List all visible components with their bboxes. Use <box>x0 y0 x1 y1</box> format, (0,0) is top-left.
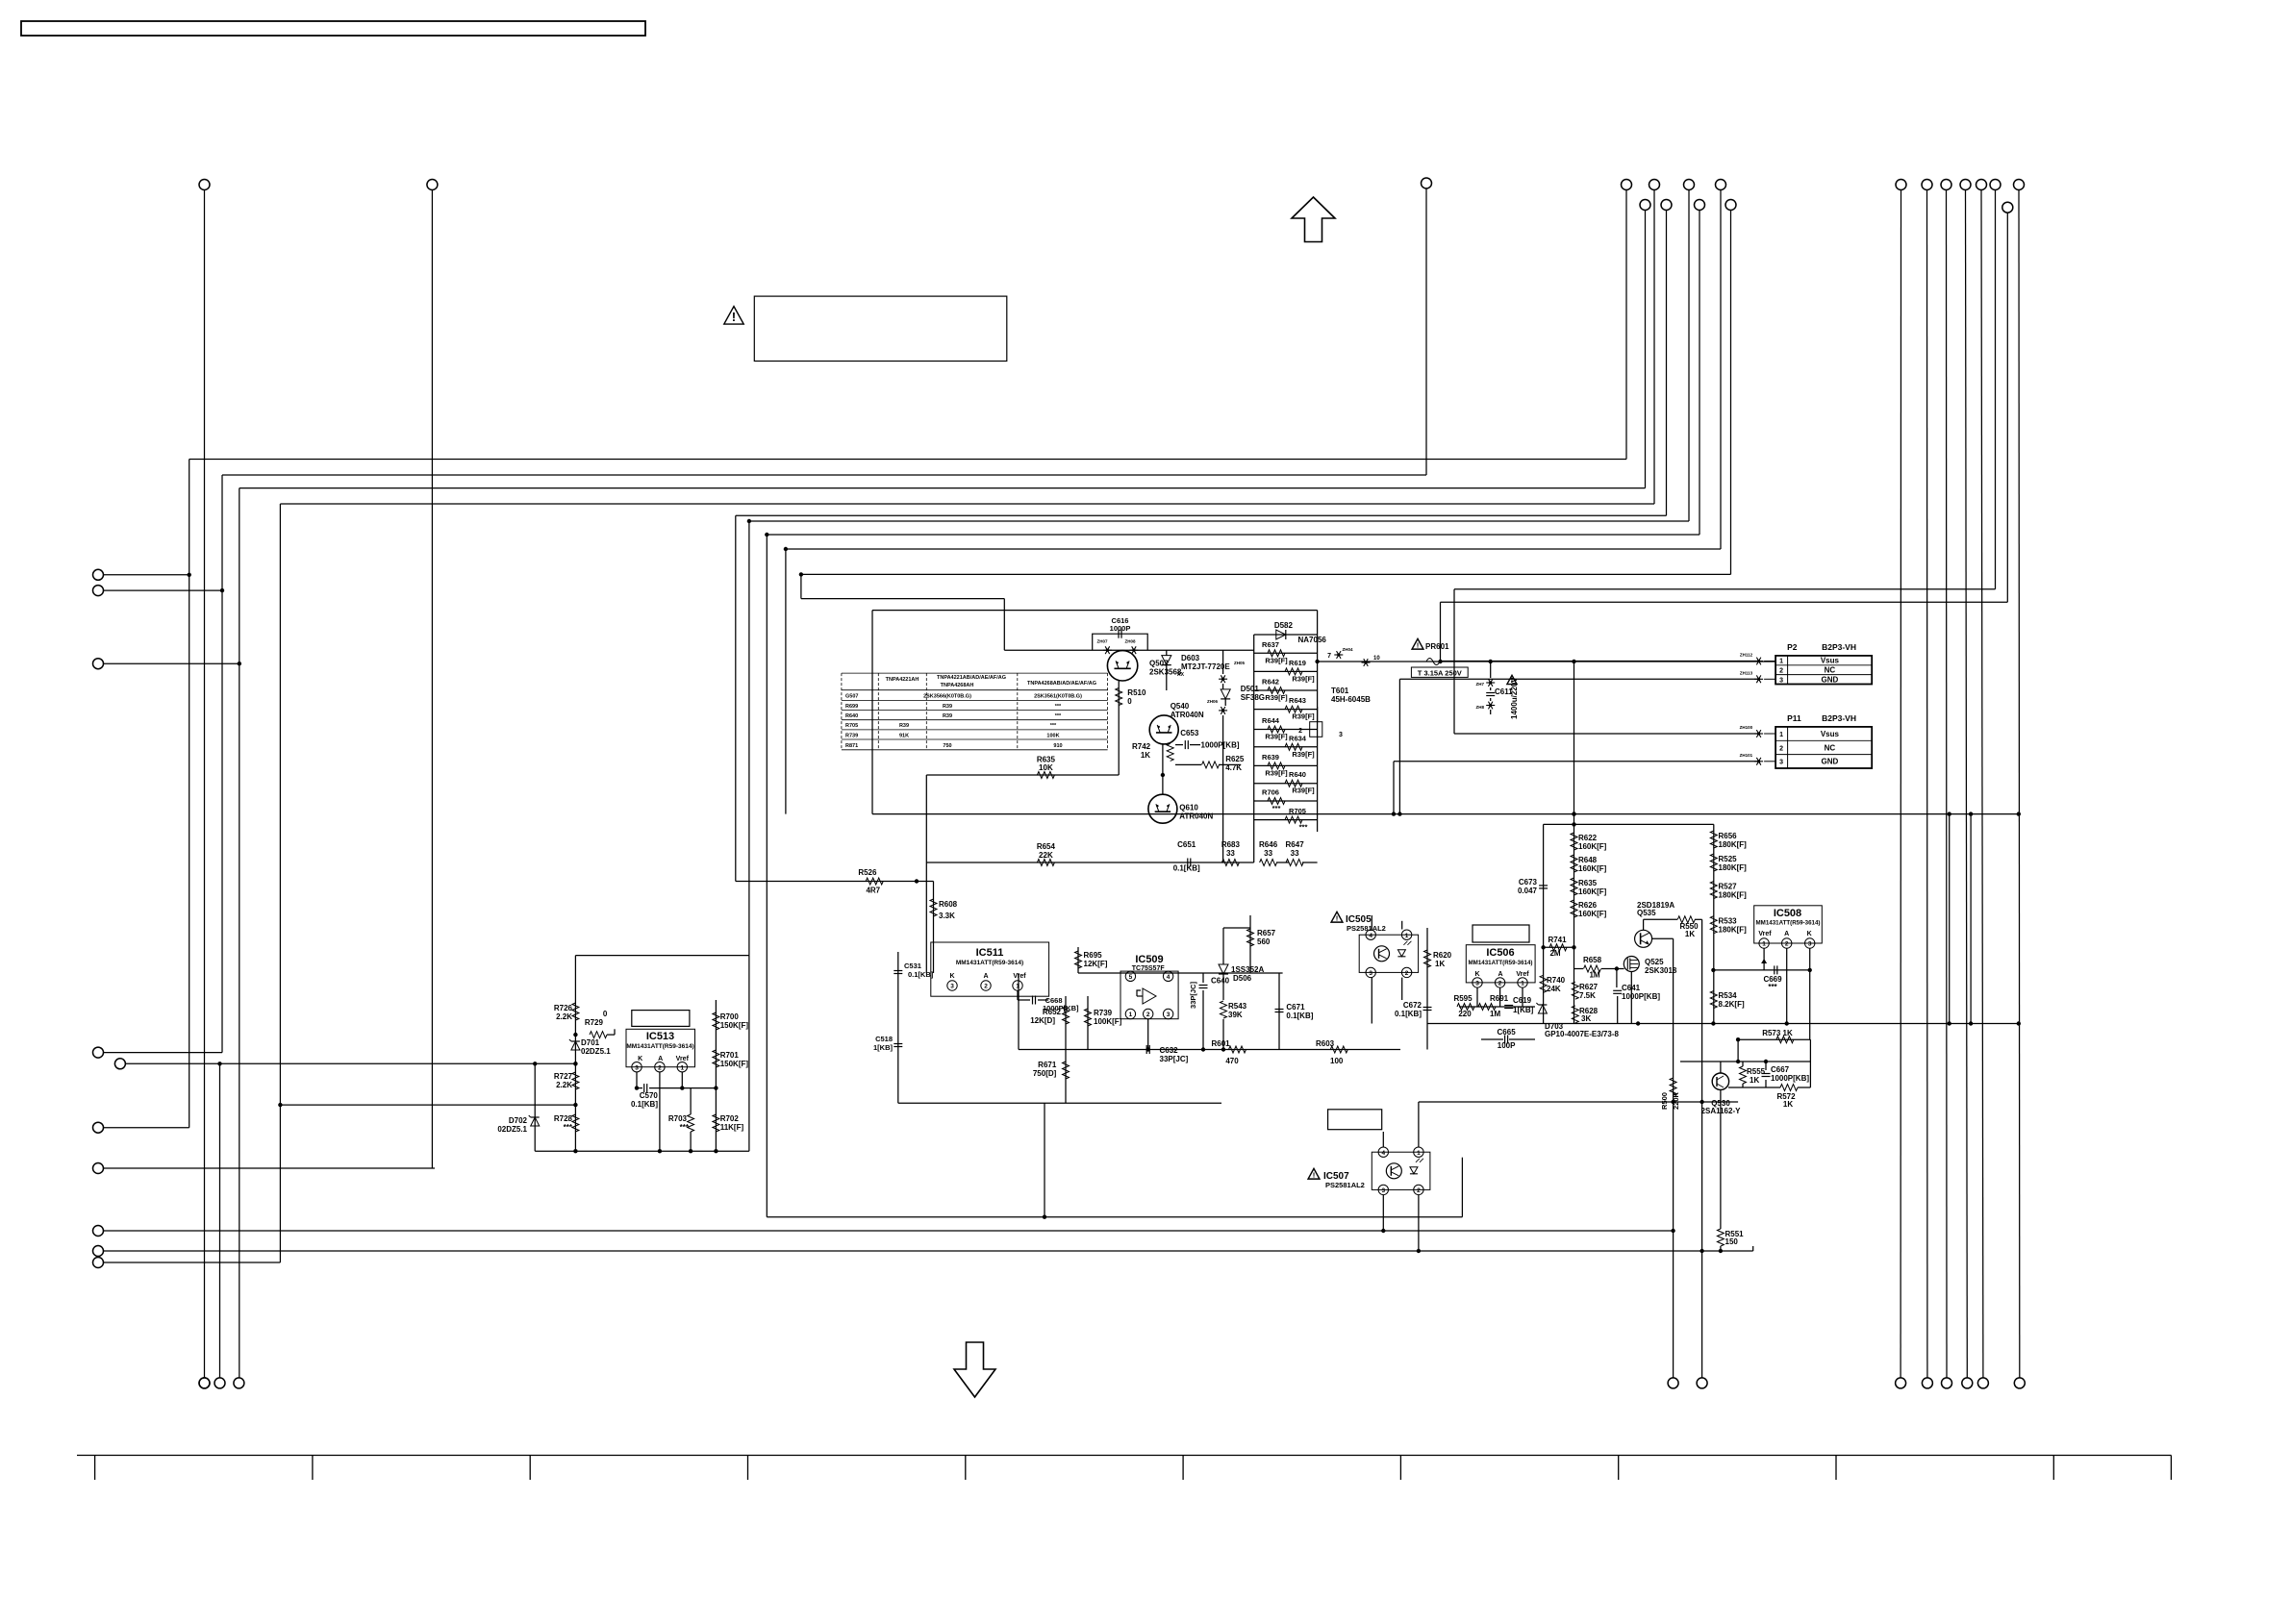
svg-text:C667: C667 <box>1771 1065 1790 1074</box>
svg-text:R500: R500 <box>1660 1092 1669 1110</box>
svg-text:R646: R646 <box>1259 840 1278 849</box>
svg-text:1400u/220V: 1400u/220V <box>1510 677 1519 719</box>
svg-text:91K: 91K <box>899 734 909 739</box>
svg-text:R39[F]: R39[F] <box>1292 787 1315 795</box>
svg-text:0.1[KB]: 0.1[KB] <box>1395 1010 1422 1018</box>
svg-text:33: 33 <box>1226 849 1235 858</box>
svg-text:GND: GND <box>1822 675 1839 684</box>
svg-text:R741: R741 <box>1548 936 1567 944</box>
svg-text:1K: 1K <box>1435 960 1445 968</box>
svg-text:R740: R740 <box>1547 976 1566 985</box>
svg-text:GP10-4007E-E3/73-8: GP10-4007E-E3/73-8 <box>1545 1030 1619 1038</box>
svg-text:1K: 1K <box>1783 1100 1793 1109</box>
svg-text:3: 3 <box>635 1064 639 1071</box>
svg-text:R702: R702 <box>720 1114 740 1123</box>
svg-text:ZH08: ZH08 <box>1124 639 1136 644</box>
svg-text:D501: D501 <box>1241 685 1260 693</box>
svg-text:R39[F]: R39[F] <box>1292 750 1315 759</box>
svg-text:A: A <box>1498 971 1502 978</box>
svg-text:10K: 10K <box>1039 763 1053 772</box>
svg-text:Vref: Vref <box>1758 931 1772 937</box>
svg-text:1M: 1M <box>1490 1010 1500 1018</box>
svg-text:R706: R706 <box>1262 788 1279 797</box>
svg-text:22K: 22K <box>1039 851 1053 860</box>
svg-text:***: *** <box>1299 823 1308 832</box>
svg-text:R683: R683 <box>1221 840 1241 849</box>
svg-text:B2P3-VH: B2P3-VH <box>1822 713 1856 723</box>
svg-text:GND: GND <box>1822 758 1839 766</box>
svg-text:P2: P2 <box>1787 642 1798 652</box>
svg-text:R644: R644 <box>1262 716 1280 725</box>
svg-text:0.1[KB]: 0.1[KB] <box>1173 864 1200 873</box>
svg-text:3: 3 <box>1167 1012 1171 1018</box>
svg-text:2: 2 <box>1785 941 1789 948</box>
svg-text:R543: R543 <box>1228 1002 1247 1011</box>
svg-text:160K[F]: 160K[F] <box>1578 842 1607 851</box>
svg-text:4: 4 <box>1167 974 1171 981</box>
svg-text:R657: R657 <box>1257 929 1276 937</box>
svg-text:R573 1K: R573 1K <box>1762 1029 1793 1037</box>
svg-text:D582: D582 <box>1274 621 1294 630</box>
svg-text:SF38G: SF38G <box>1241 693 1265 702</box>
svg-text:ZH05: ZH05 <box>1234 661 1246 665</box>
svg-text:470: 470 <box>1225 1057 1239 1065</box>
svg-text:1[KB]: 1[KB] <box>873 1043 894 1052</box>
svg-text:02DZ5.1: 02DZ5.1 <box>497 1125 527 1134</box>
svg-text:R729: R729 <box>585 1018 604 1027</box>
svg-text:3: 3 <box>1369 970 1372 977</box>
svg-text:R603: R603 <box>1316 1039 1335 1048</box>
svg-text:***: *** <box>680 1123 690 1132</box>
svg-text:1K: 1K <box>1685 930 1695 938</box>
svg-text:4: 4 <box>1369 933 1372 939</box>
svg-text:C653: C653 <box>1180 729 1199 737</box>
svg-text:C651: C651 <box>1177 840 1196 849</box>
svg-text:7.5K: 7.5K <box>1579 991 1596 1000</box>
svg-text:1: 1 <box>1779 659 1783 665</box>
svg-text:R619: R619 <box>1289 659 1306 667</box>
svg-text:K: K <box>1474 971 1479 978</box>
svg-text:R39: R39 <box>943 713 952 719</box>
svg-text:1[KB]: 1[KB] <box>1513 1006 1534 1014</box>
svg-text:R695: R695 <box>1084 951 1103 960</box>
svg-text:0.1[KB]: 0.1[KB] <box>631 1100 658 1109</box>
svg-text:C672: C672 <box>1403 1001 1422 1010</box>
svg-text:TC75S57F: TC75S57F <box>1132 965 1166 972</box>
svg-text:PS2581AL2: PS2581AL2 <box>1347 924 1386 933</box>
svg-text:2: 2 <box>1417 1187 1421 1194</box>
svg-text:3: 3 <box>1808 941 1812 948</box>
svg-text:Vref: Vref <box>1013 973 1026 980</box>
svg-text:10: 10 <box>1373 656 1380 662</box>
svg-text:0: 0 <box>1127 697 1132 706</box>
svg-text:MM1431ATT(R59-3614): MM1431ATT(R59-3614) <box>956 960 1023 966</box>
svg-text:A: A <box>983 973 988 980</box>
svg-text:ZH101: ZH101 <box>1740 753 1753 758</box>
svg-text:C665: C665 <box>1498 1028 1517 1037</box>
svg-text:2: 2 <box>1146 1012 1150 1018</box>
svg-text:R39: R39 <box>943 704 952 710</box>
svg-text:1K: 1K <box>1141 751 1150 760</box>
svg-text:100K[F]: 100K[F] <box>1094 1017 1122 1026</box>
svg-text:R533: R533 <box>1719 917 1738 926</box>
svg-text:C632: C632 <box>1160 1046 1179 1055</box>
svg-text:R671: R671 <box>1038 1061 1057 1069</box>
svg-text:3: 3 <box>1779 677 1783 684</box>
svg-text:45H-6045B: 45H-6045B <box>1331 695 1371 704</box>
svg-text:IC508: IC508 <box>1774 908 1801 919</box>
svg-text:3: 3 <box>950 984 954 990</box>
svg-text:2SK3566(K0T0B.G): 2SK3566(K0T0B.G) <box>923 694 971 700</box>
svg-text:7: 7 <box>1327 653 1331 660</box>
svg-text:5: 5 <box>1129 974 1133 981</box>
svg-text:1000P[KB]: 1000P[KB] <box>1622 992 1660 1001</box>
svg-text:R595: R595 <box>1453 994 1473 1003</box>
svg-text:R527: R527 <box>1719 883 1738 891</box>
svg-text:R620: R620 <box>1433 951 1452 960</box>
svg-text:1: 1 <box>1779 732 1783 738</box>
svg-text:R555: R555 <box>1747 1067 1766 1076</box>
svg-text:T601: T601 <box>1331 687 1349 695</box>
svg-text:R622: R622 <box>1578 834 1598 842</box>
svg-text:R654: R654 <box>1037 842 1056 851</box>
svg-text:NC: NC <box>1825 743 1836 752</box>
svg-text:IC513: IC513 <box>646 1031 674 1042</box>
svg-text:2SK3561(K0T0B.G): 2SK3561(K0T0B.G) <box>1034 694 1082 700</box>
svg-text:C570: C570 <box>640 1091 659 1100</box>
svg-text:MM1431ATT(R59-3614): MM1431ATT(R59-3614) <box>1756 920 1821 927</box>
svg-text:R691: R691 <box>1490 994 1509 1003</box>
svg-text:0.1[KB]: 0.1[KB] <box>1286 1012 1313 1020</box>
svg-text:1SS352A: 1SS352A <box>1231 965 1264 974</box>
svg-text:A: A <box>1784 931 1789 937</box>
svg-text:ZH112: ZH112 <box>1740 653 1753 658</box>
svg-text:IC509: IC509 <box>1135 954 1163 965</box>
svg-text:***: *** <box>1055 704 1062 710</box>
svg-text:1: 1 <box>1129 1012 1133 1018</box>
svg-text:24K: 24K <box>1547 985 1561 993</box>
svg-text:***: *** <box>1050 723 1057 729</box>
svg-text:K: K <box>1807 931 1812 937</box>
svg-text:R701: R701 <box>720 1051 740 1060</box>
svg-text:Q535: Q535 <box>1637 909 1656 917</box>
svg-text:R705: R705 <box>1289 807 1306 815</box>
svg-text:MM1431ATT(R59-3614): MM1431ATT(R59-3614) <box>626 1043 693 1050</box>
svg-text:160K[F]: 160K[F] <box>1578 864 1607 873</box>
svg-text:11K[F]: 11K[F] <box>720 1123 744 1132</box>
svg-text:1000P: 1000P <box>1110 624 1131 633</box>
svg-text:C640: C640 <box>1211 977 1230 986</box>
svg-text:***: *** <box>1768 983 1777 991</box>
svg-text:Vref: Vref <box>1516 971 1529 978</box>
svg-text:R639: R639 <box>1262 753 1279 762</box>
svg-text:R727: R727 <box>554 1072 573 1081</box>
svg-text:0.1[KB]: 0.1[KB] <box>908 970 934 979</box>
svg-text:150: 150 <box>1725 1237 1739 1246</box>
svg-text:R39[F]: R39[F] <box>1292 712 1315 721</box>
svg-text:160K[F]: 160K[F] <box>1578 887 1607 896</box>
svg-text:Q525: Q525 <box>1645 958 1664 966</box>
svg-text:ZH04: ZH04 <box>1342 647 1353 652</box>
svg-text:!: ! <box>1417 640 1420 649</box>
svg-text:R39: R39 <box>899 723 909 729</box>
svg-text:R510: R510 <box>1127 688 1146 697</box>
svg-text:G507: G507 <box>845 694 858 700</box>
svg-text:33P[JC]: 33P[JC] <box>1160 1055 1189 1063</box>
svg-text:R608: R608 <box>939 900 958 909</box>
svg-text:R39[F]: R39[F] <box>1265 768 1288 777</box>
svg-text:1000P[KB]: 1000P[KB] <box>1201 741 1240 750</box>
svg-text:180K[F]: 180K[F] <box>1719 926 1748 935</box>
svg-text:1: 1 <box>1405 933 1409 939</box>
svg-text:Q610: Q610 <box>1179 804 1198 812</box>
svg-text:R634: R634 <box>1289 734 1307 742</box>
svg-text:Q540: Q540 <box>1171 702 1190 711</box>
svg-text:2M: 2M <box>1549 949 1560 958</box>
svg-text:39K: 39K <box>1228 1011 1243 1019</box>
svg-text:TNPA4221AH: TNPA4221AH <box>886 677 919 683</box>
svg-text:R647: R647 <box>1286 840 1305 849</box>
svg-text:ZH113: ZH113 <box>1740 670 1753 675</box>
svg-text:ZH100: ZH100 <box>1740 725 1753 730</box>
svg-text:2: 2 <box>1779 745 1783 752</box>
svg-text:AX: AX <box>1177 672 1185 678</box>
svg-text:IC511: IC511 <box>976 947 1004 959</box>
svg-text:12K[F]: 12K[F] <box>1084 960 1108 968</box>
svg-text:1000P[KB]: 1000P[KB] <box>1771 1074 1809 1083</box>
svg-text:100K: 100K <box>1046 734 1059 739</box>
svg-text:R637: R637 <box>1262 640 1279 649</box>
svg-text:R705: R705 <box>845 723 858 729</box>
svg-text:PR601: PR601 <box>1425 642 1449 651</box>
svg-text:12K[D]: 12K[D] <box>1030 1016 1055 1025</box>
svg-text:R39[F]: R39[F] <box>1265 733 1288 741</box>
svg-text:ZH06: ZH06 <box>1207 699 1219 704</box>
svg-text:33: 33 <box>1291 849 1299 858</box>
svg-text:4R7: 4R7 <box>866 887 880 895</box>
svg-text:R700: R700 <box>720 1012 740 1021</box>
svg-text:R635: R635 <box>1578 879 1598 887</box>
svg-text:R703: R703 <box>668 1114 688 1123</box>
svg-text:3: 3 <box>1779 760 1783 766</box>
svg-text:R526: R526 <box>858 868 877 877</box>
svg-text:180K[F]: 180K[F] <box>1719 891 1748 900</box>
svg-text:1M: 1M <box>1589 971 1599 980</box>
svg-text:K: K <box>949 973 954 980</box>
svg-text:2.2K: 2.2K <box>556 1012 572 1021</box>
svg-text:D701: D701 <box>581 1038 600 1047</box>
svg-text:B2P3-VH: B2P3-VH <box>1822 642 1856 652</box>
svg-text:ZH8: ZH8 <box>1475 705 1484 710</box>
svg-text:8.2K[F]: 8.2K[F] <box>1719 1000 1745 1009</box>
svg-text:1: 1 <box>1417 1150 1421 1157</box>
svg-text:33: 33 <box>1264 849 1272 858</box>
svg-text:4: 4 <box>1381 1150 1385 1157</box>
svg-text:220: 220 <box>1458 1010 1472 1018</box>
svg-text:T 3.15A 250V: T 3.15A 250V <box>1418 668 1462 677</box>
svg-text:750: 750 <box>943 743 951 749</box>
svg-text:150K[F]: 150K[F] <box>720 1060 749 1068</box>
svg-text:R525: R525 <box>1719 855 1738 863</box>
svg-text:C531: C531 <box>904 962 921 970</box>
svg-text:2SK3018: 2SK3018 <box>1645 966 1677 975</box>
svg-text:R658: R658 <box>1583 956 1602 964</box>
svg-text:C518: C518 <box>875 1035 893 1043</box>
svg-text:R534: R534 <box>1719 991 1738 1000</box>
svg-text:Vsus: Vsus <box>1821 730 1840 738</box>
svg-text:R648: R648 <box>1578 856 1598 864</box>
svg-text:2.2K: 2.2K <box>556 1081 572 1089</box>
svg-text:3: 3 <box>1381 1187 1385 1194</box>
svg-text:D506: D506 <box>1233 974 1252 983</box>
svg-text:!: ! <box>732 310 736 324</box>
svg-text:150K[F]: 150K[F] <box>720 1021 749 1030</box>
svg-text:IC506: IC506 <box>1486 947 1514 959</box>
svg-text:A: A <box>658 1056 663 1062</box>
svg-text:1: 1 <box>1762 941 1766 948</box>
svg-text:02DZ5.1: 02DZ5.1 <box>581 1047 611 1056</box>
svg-text:R652: R652 <box>1043 1008 1062 1016</box>
svg-text:P11: P11 <box>1787 713 1801 723</box>
svg-text:R39[F]: R39[F] <box>1265 693 1288 702</box>
svg-text:R601: R601 <box>1211 1039 1230 1048</box>
svg-text:1: 1 <box>680 1064 684 1071</box>
svg-text:3K: 3K <box>1581 1014 1591 1023</box>
svg-text:750[D]: 750[D] <box>1033 1069 1057 1078</box>
svg-text:ATR040N: ATR040N <box>1171 711 1204 719</box>
svg-text:R625: R625 <box>1225 755 1245 763</box>
svg-text:0: 0 <box>603 1010 608 1018</box>
svg-text:R627: R627 <box>1579 983 1599 991</box>
svg-text:3: 3 <box>1475 981 1479 987</box>
svg-text:2: 2 <box>1405 970 1409 977</box>
svg-text:180K[F]: 180K[F] <box>1719 840 1748 849</box>
svg-text:3: 3 <box>1339 732 1343 738</box>
svg-text:K: K <box>638 1056 642 1062</box>
svg-text:ATR040N: ATR040N <box>1179 812 1213 821</box>
svg-text:C673: C673 <box>1519 878 1538 887</box>
svg-text:***: *** <box>564 1123 573 1132</box>
svg-text:TNPA4268AB/AD/AE/AF/AG: TNPA4268AB/AD/AE/AF/AG <box>1027 681 1096 687</box>
svg-text:2: 2 <box>658 1064 662 1071</box>
svg-text:NA7056: NA7056 <box>1298 636 1327 644</box>
svg-text:!: ! <box>1336 913 1339 922</box>
svg-text:R871: R871 <box>845 743 858 749</box>
svg-text:2: 2 <box>984 984 988 990</box>
svg-text:R643: R643 <box>1289 696 1306 705</box>
svg-text:NC: NC <box>1825 666 1836 675</box>
svg-text:!: ! <box>1313 1170 1316 1179</box>
svg-text:D702: D702 <box>509 1116 528 1125</box>
svg-text:Vref: Vref <box>676 1056 690 1062</box>
svg-text:C671: C671 <box>1286 1003 1305 1012</box>
svg-text:180K[F]: 180K[F] <box>1719 863 1748 872</box>
svg-text:D603: D603 <box>1181 654 1200 662</box>
svg-text:Vsus: Vsus <box>1821 657 1840 665</box>
svg-text:R39[F]: R39[F] <box>1265 656 1288 664</box>
svg-text:1K: 1K <box>1750 1076 1759 1085</box>
svg-text:3.3K: 3.3K <box>939 912 955 920</box>
svg-text:100P: 100P <box>1498 1041 1516 1050</box>
svg-text:R642: R642 <box>1262 678 1279 687</box>
svg-text:910: 910 <box>1053 743 1062 749</box>
svg-text:TNPA4221AB/AD/AE/AF/AG: TNPA4221AB/AD/AE/AF/AG <box>937 675 1006 681</box>
svg-text:160K[F]: 160K[F] <box>1578 910 1607 918</box>
svg-text:TNPA4268AH: TNPA4268AH <box>941 683 974 688</box>
svg-text:2: 2 <box>1498 981 1502 987</box>
svg-text:ZH07: ZH07 <box>1096 639 1108 644</box>
svg-text:R739: R739 <box>845 734 858 739</box>
svg-text:R739: R739 <box>1094 1009 1113 1017</box>
svg-text:R640: R640 <box>845 713 858 719</box>
svg-text:R728: R728 <box>554 1114 573 1123</box>
svg-text:R742: R742 <box>1132 742 1151 751</box>
svg-text:R726: R726 <box>554 1004 573 1012</box>
svg-text:C619: C619 <box>1513 996 1532 1005</box>
svg-text:R626: R626 <box>1578 901 1598 910</box>
svg-text:R39[F]: R39[F] <box>1292 674 1315 683</box>
svg-text:33P[JC]: 33P[JC] <box>1189 982 1197 1009</box>
svg-text:1: 1 <box>1521 981 1524 987</box>
svg-text:R640: R640 <box>1289 770 1306 779</box>
svg-text:560: 560 <box>1257 937 1271 946</box>
svg-text:0.047: 0.047 <box>1518 887 1538 895</box>
svg-text:R699: R699 <box>845 704 858 710</box>
svg-text:R656: R656 <box>1719 832 1738 840</box>
svg-text:PS2581AL2: PS2581AL2 <box>1325 1181 1365 1189</box>
svg-text:ZH7: ZH7 <box>1475 682 1484 687</box>
svg-text:2: 2 <box>1298 728 1302 735</box>
svg-text:***: *** <box>1272 804 1281 812</box>
svg-text:***: *** <box>1055 713 1062 719</box>
svg-text:MM1431ATT(R59-3614): MM1431ATT(R59-3614) <box>1469 960 1533 966</box>
svg-text:2: 2 <box>1779 668 1783 675</box>
svg-text:100: 100 <box>1330 1057 1344 1065</box>
